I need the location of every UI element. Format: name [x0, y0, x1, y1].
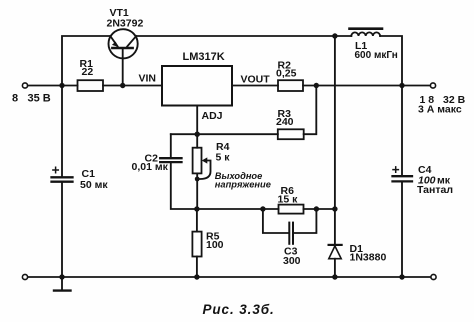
bottom left terminal — [22, 274, 27, 279]
svg-text:VIN: VIN — [139, 72, 157, 84]
resistor R2 — [278, 80, 303, 91]
svg-text:1N3880: 1N3880 — [350, 251, 387, 263]
svg-text:Тантал: Тантал — [417, 184, 453, 196]
node D1 top junction — [332, 206, 337, 211]
node input junction — [59, 83, 64, 88]
node ADJ junction — [195, 132, 200, 137]
wire VOUT to R2 — [232, 85, 278, 87]
output terminal — [430, 83, 435, 88]
node R6 right junction — [314, 206, 319, 211]
capacitor C4 — [401, 86, 403, 177]
svg-text:0,01 мк: 0,01 мк — [132, 161, 169, 173]
svg-text:240: 240 — [276, 116, 294, 128]
svg-text:LM317K: LM317K — [183, 51, 225, 63]
wire R3 to ADJ node and C2 corner — [171, 133, 278, 135]
resistor R3 — [278, 129, 304, 139]
node R5 bottom junction — [194, 274, 199, 279]
node R2 output junction — [314, 83, 319, 88]
wire top rail to D1 — [334, 36, 336, 245]
output labels — [418, 94, 466, 116]
svg-text:600 мкГн: 600 мкГн — [355, 50, 398, 61]
svg-text:напряжение: напряжение — [215, 179, 271, 189]
svg-text:C1: C1 — [82, 168, 96, 180]
wire C1 to bottom rail — [61, 182, 63, 277]
input label 8...35 V — [12, 93, 51, 105]
wire C3 branch — [263, 209, 317, 233]
node top rail junction — [332, 33, 337, 38]
input terminal — [22, 83, 27, 88]
resistor R6 — [279, 205, 304, 214]
node C4 bottom junction — [399, 274, 404, 279]
resistor R1 — [78, 80, 104, 91]
capacitor C1 — [52, 176, 73, 178]
svg-text:22: 22 — [82, 66, 94, 78]
capacitor C2 — [160, 157, 181, 159]
svg-text:Рис. 3.3б.: Рис. 3.3б. — [203, 302, 275, 317]
svg-text:300: 300 — [283, 255, 301, 267]
svg-text:0,25: 0,25 — [276, 67, 297, 79]
node ground junction — [59, 274, 64, 279]
svg-text:VOUT: VOUT — [241, 73, 271, 85]
svg-text:5 к: 5 к — [216, 152, 231, 164]
ground — [61, 277, 63, 290]
wire input junction down to C1 — [61, 86, 63, 178]
wire input to R1 — [28, 85, 78, 87]
svg-text:35 В: 35 В — [28, 93, 51, 105]
wire R6 right — [304, 208, 335, 210]
caption — [203, 302, 275, 317]
wire ADJ lead — [196, 106, 198, 135]
IC U1 LM317K — [162, 66, 232, 106]
resistor R5 — [196, 209, 198, 232]
wire base lead — [122, 49, 124, 86]
wire C2 branch down — [170, 134, 172, 158]
svg-text:50 мк: 50 мк — [80, 179, 108, 191]
svg-text:100: 100 — [206, 239, 224, 251]
wire L1 to output corner — [380, 36, 402, 86]
capacitor C3 — [288, 223, 290, 244]
node D1 bottom junction — [332, 274, 337, 279]
wire R1 to VIN — [103, 85, 162, 87]
bottom right terminal — [431, 274, 436, 279]
potentiometer R4 — [196, 134, 198, 148]
svg-text:3 А макс: 3 А макс — [418, 104, 462, 116]
node R6 left junction — [260, 206, 265, 211]
svg-text:8: 8 — [12, 93, 18, 105]
svg-text:2N3792: 2N3792 — [107, 18, 144, 30]
node L1 output junction — [399, 83, 404, 88]
inductor L1 — [350, 29, 383, 36]
node base junction — [120, 83, 125, 88]
wire collector top rail — [136, 35, 351, 37]
output voltage note — [215, 171, 271, 189]
bottom rail — [28, 276, 431, 278]
svg-text:15 к: 15 к — [278, 193, 299, 205]
wire C2 to lower node — [171, 162, 279, 209]
node R4 R5 junction — [194, 206, 199, 211]
wire input junction up to emitter rail — [62, 36, 110, 86]
svg-text:ADJ: ADJ — [202, 110, 223, 122]
wire R2 to output terminal — [303, 85, 430, 87]
diode D1 — [329, 245, 342, 277]
transistor Q1 VT1 — [109, 29, 138, 58]
wire R2 junction down to R3 — [304, 86, 317, 135]
